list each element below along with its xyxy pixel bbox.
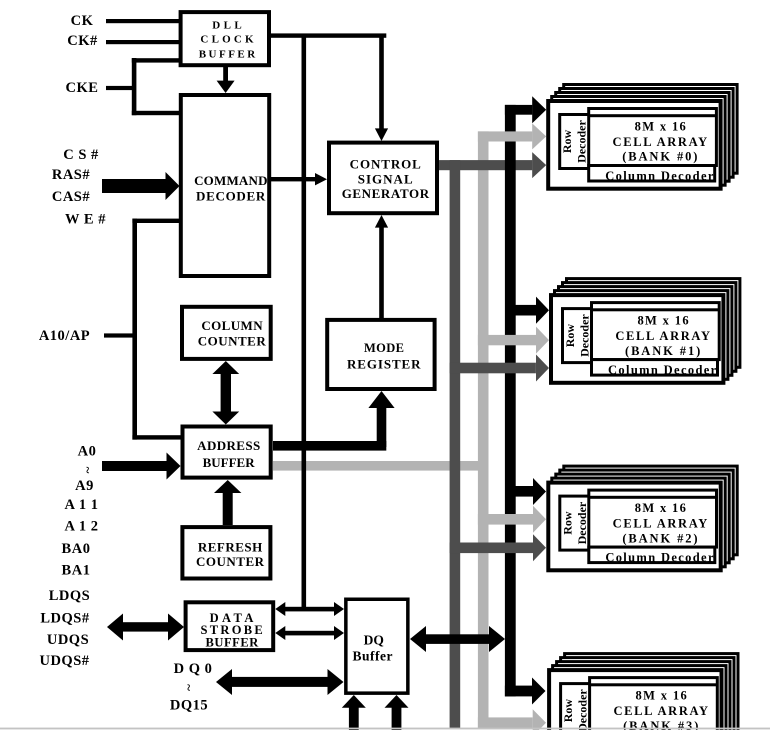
label A9 <box>75 478 94 494</box>
double arrow data strobe buffer / DQ buffer lower <box>275 626 344 640</box>
label WE# <box>65 212 106 228</box>
wire A10/AP input <box>104 333 137 337</box>
double arrow data strobe buffer / DQ buffer upper <box>275 602 344 616</box>
data bus branch arm to BANK1 <box>515 305 536 316</box>
wire DLL output horizontal <box>271 33 386 37</box>
svg-text:BA0: BA0 <box>62 541 91 557</box>
svg-text:CELL ARRAY: CELL ARRAY <box>613 135 709 149</box>
bank 3 stacked layers <box>553 654 738 730</box>
svg-text:Decoder: Decoder <box>575 501 589 544</box>
arrow refresh counter to address buffer <box>214 480 241 525</box>
address bus (light gray) vertical trunk <box>478 131 489 728</box>
svg-text:DLL: DLL <box>212 20 245 32</box>
bank 2 row decoder label <box>560 501 589 544</box>
bank 0 column decoder label <box>605 169 715 183</box>
label U1 line2 <box>200 34 256 46</box>
label U2 line2 <box>196 189 266 204</box>
address bus branch arm to BANK1 <box>478 335 536 345</box>
label LDQS# <box>40 611 89 627</box>
bank 0 row decoder box <box>560 115 590 169</box>
control bus arrowhead into BANK0 <box>532 152 546 178</box>
svg-text:CLOCK: CLOCK <box>200 34 256 46</box>
control bus branch arm to BANK1 <box>450 363 536 374</box>
svg-text:CKE: CKE <box>66 80 99 96</box>
data bus arrowhead into BANK3 <box>532 678 546 705</box>
bank 0 column decoder box <box>589 166 715 182</box>
address bus feed wire from ADDRESS BUFFER <box>273 461 489 471</box>
command input bus arrow (CS#,RAS#,CAS#,WE#) <box>102 172 180 200</box>
bank 3 cell array inner top line <box>590 683 718 686</box>
wire CKE vertical <box>132 58 137 115</box>
label U8 line2 <box>201 623 266 637</box>
bank 1 row decoder label <box>563 314 592 357</box>
label U6 line2 <box>203 455 256 470</box>
label U1 line1 <box>212 20 245 32</box>
svg-text:COUNTER: COUNTER <box>198 334 267 349</box>
data bus top elbow arm to BANK0 <box>505 105 532 115</box>
bank 1 cell array inner top line <box>592 308 720 311</box>
svg-text:LDQS#: LDQS# <box>40 611 89 627</box>
svg-text:DECODER: DECODER <box>196 189 266 204</box>
label A12 <box>65 519 99 535</box>
wire A10/AP branch to address buffer <box>132 435 181 439</box>
svg-text:Row: Row <box>560 511 574 535</box>
svg-text:GENERATOR: GENERATOR <box>342 186 430 201</box>
svg-text:CAS#: CAS# <box>52 189 91 205</box>
svg-text:CELL ARRAY: CELL ARRAY <box>613 517 709 531</box>
address buffer U6 <box>183 427 271 478</box>
bank 2 column decoder box <box>589 547 715 563</box>
label CKE <box>66 80 99 96</box>
bank 1 row decoder box <box>563 309 593 363</box>
label tilde DQ0-DQ15 <box>182 684 197 691</box>
label A10/AP <box>39 328 90 344</box>
wire CK input <box>106 19 179 23</box>
svg-text:LDQS: LDQS <box>49 588 91 604</box>
DQ0-DQ15 double arrow <box>216 669 344 695</box>
command decoder U2 <box>181 95 269 276</box>
svg-text:Column Decoder: Column Decoder <box>605 550 715 564</box>
svg-text:~: ~ <box>182 684 197 691</box>
svg-text:CONTROL: CONTROL <box>350 156 422 171</box>
svg-text:UDQS: UDQS <box>47 632 89 648</box>
address bus top elbow arm to BANK0 <box>478 131 532 141</box>
label U1 line3 <box>199 49 258 61</box>
bank 0 stacked layers <box>552 85 737 186</box>
arrowhead into U3 top <box>375 128 388 141</box>
svg-text:CELL ARRAY: CELL ARRAY <box>615 329 711 343</box>
label U6 line1 <box>197 438 260 453</box>
svg-text:BUFFER: BUFFER <box>199 49 258 61</box>
svg-text:DQ: DQ <box>364 633 384 648</box>
label U7 line2 <box>196 554 265 569</box>
svg-text:A 1 1: A 1 1 <box>65 497 99 513</box>
bank 2 cell array label line2 <box>613 517 709 531</box>
mode register U5 <box>327 320 434 389</box>
svg-text:W E #: W E # <box>65 212 106 228</box>
label U2 line1 <box>194 173 268 188</box>
bank 1 column decoder box <box>592 360 718 376</box>
svg-text:COLUMN: COLUMN <box>201 318 263 333</box>
bank 0 cell array box <box>589 109 717 166</box>
refresh counter U7 <box>182 527 270 578</box>
bank 3 row decoder label <box>561 689 590 730</box>
label CAS# <box>52 189 91 205</box>
svg-text:COUNTER: COUNTER <box>196 554 265 569</box>
address input bus arrow (A0-A9) <box>102 453 181 480</box>
bank 1 cell array label line2 <box>615 329 711 343</box>
svg-text:SIGNAL: SIGNAL <box>358 172 414 187</box>
svg-text:(BANK #1): (BANK #1) <box>625 344 702 358</box>
wire CKE input <box>106 86 136 90</box>
label U3 line1 <box>350 156 422 171</box>
column counter U4 <box>182 307 271 359</box>
arrowhead into mode register <box>368 391 394 408</box>
svg-text:(BANK #2): (BANK #2) <box>622 531 699 545</box>
DQ pad arrow 1 into DQ buffer <box>342 695 366 730</box>
bank 3 cell array label line3 <box>623 719 700 730</box>
label U5 line2 <box>347 356 421 371</box>
label U9 line2 <box>353 648 394 663</box>
arrow command decoder to U3 <box>271 173 327 185</box>
svg-text:UDQS#: UDQS# <box>39 653 89 669</box>
bank 3 cell array label line2 <box>613 704 709 718</box>
bank 2 cell array label line3 <box>622 531 699 545</box>
bank 1 cell array label line3 <box>625 344 702 358</box>
svg-text:CK: CK <box>71 13 94 29</box>
label CS# <box>63 147 99 163</box>
wire address buffer to mode register <box>273 407 386 451</box>
label A0 <box>78 444 97 460</box>
label DQ15 <box>170 698 208 714</box>
svg-text:D Q 0: D Q 0 <box>174 661 213 677</box>
label UDQS# <box>39 653 89 669</box>
svg-text:DQ15: DQ15 <box>170 698 208 714</box>
svg-text:REFRESH: REFRESH <box>198 540 263 555</box>
bank 2 cell array label line1 <box>635 501 688 515</box>
label U8 line1 <box>210 611 257 625</box>
svg-text:(BANK #0): (BANK #0) <box>622 150 699 164</box>
bank 1 cell array box <box>592 303 720 360</box>
bank 1 cell array label line1 <box>637 313 690 327</box>
data bus (black) vertical trunk <box>505 105 516 697</box>
svg-text:BUFFER: BUFFER <box>206 635 260 649</box>
label U4 line2 <box>198 334 267 349</box>
bank 2 column decoder label <box>605 550 715 564</box>
double arrow column counter / address buffer <box>212 361 239 425</box>
data bus arrowhead into BANK1 <box>536 297 549 324</box>
DQ buffer U9 <box>346 599 408 693</box>
label U4 line1 <box>201 318 263 333</box>
label BA1 <box>62 563 91 579</box>
wire DLL clock to control signal generator <box>379 35 384 130</box>
bank 0 row decoder label <box>560 120 589 163</box>
label U3 line3 <box>342 186 430 201</box>
address bus arrowhead into BANK1 <box>536 327 549 354</box>
svg-text:A 1 2: A 1 2 <box>65 519 99 535</box>
svg-text:C S #: C S # <box>63 147 99 163</box>
control bus branch arm to BANK2 <box>450 543 533 554</box>
bank 1 column decoder label <box>608 363 718 377</box>
label U3 line2 <box>358 172 414 187</box>
bank 3 row decoder box <box>561 684 591 730</box>
control bus arrowhead into BANK2 <box>533 534 546 561</box>
bank 1 front box <box>551 295 723 383</box>
svg-text:Buffer: Buffer <box>353 648 394 663</box>
control bus (dark gray) horizontal from U3 to BANK0 <box>439 160 532 170</box>
bank 0 front box <box>548 101 720 189</box>
data bus branch arm to BANK2 <box>515 486 536 497</box>
bank 0 cell array label line2 <box>613 135 709 149</box>
data strobe buffer U8 <box>186 602 274 650</box>
label U8 line3 <box>206 635 260 649</box>
wire CKE branch to command decoder <box>132 111 179 115</box>
svg-text:Decoder: Decoder <box>576 689 590 730</box>
bank 0 cell array inner top line <box>589 114 717 117</box>
svg-text:A9: A9 <box>75 478 94 494</box>
svg-text:BA1: BA1 <box>62 563 91 579</box>
bank 3 cell array box <box>590 678 718 730</box>
label CK# <box>67 33 98 49</box>
label DQ0 <box>174 661 213 677</box>
svg-text:A0: A0 <box>78 444 97 460</box>
bank 2 cell array inner top line <box>589 496 717 499</box>
arrow mode register to U3 <box>375 215 388 318</box>
page margin line <box>0 728 770 730</box>
label CK <box>71 13 94 29</box>
svg-text:~: ~ <box>81 467 96 474</box>
svg-text:Row: Row <box>560 130 574 154</box>
svg-text:8M x 16: 8M x 16 <box>635 501 688 515</box>
svg-text:Row: Row <box>563 324 577 348</box>
label A11 <box>65 497 99 513</box>
address bus bottom elbow arm to BANK3 <box>478 717 533 728</box>
svg-text:8M x 16: 8M x 16 <box>636 688 689 702</box>
svg-text:CELL ARRAY: CELL ARRAY <box>613 704 709 718</box>
control bus (dark gray) vertical trunk <box>450 160 461 728</box>
address bus arrowhead into BANK0 <box>532 123 546 149</box>
control signal generator U3 <box>329 143 437 214</box>
data bus arrowhead into BANK2 <box>533 478 546 505</box>
label U7 line1 <box>198 540 263 555</box>
address bus arrowhead into BANK3 <box>533 709 546 730</box>
label RAS# <box>52 167 91 183</box>
svg-text:COMMAND: COMMAND <box>194 173 268 188</box>
control bus arrowhead into BANK1 <box>536 355 549 382</box>
svg-text:RAS#: RAS# <box>52 167 91 183</box>
svg-text:BUFFER: BUFFER <box>203 455 256 470</box>
svg-text:8M x 16: 8M x 16 <box>635 119 688 133</box>
svg-text:ADDRESS: ADDRESS <box>197 438 260 453</box>
label LDQS <box>49 588 91 604</box>
wire A10/AP vertical <box>132 219 137 440</box>
bank 2 front box <box>548 483 720 571</box>
svg-text:Decoder: Decoder <box>578 314 592 357</box>
svg-text:Decoder: Decoder <box>575 120 589 163</box>
label U9 line1 <box>364 633 384 648</box>
wire CK# input <box>106 40 179 44</box>
svg-text:REGISTER: REGISTER <box>347 356 421 371</box>
bank 1 stacked layers <box>555 279 740 380</box>
bank 3 front box <box>549 670 721 730</box>
bank 0 cell array label line1 <box>635 119 688 133</box>
svg-text:MODE: MODE <box>364 341 405 355</box>
bank 2 cell array box <box>589 490 717 547</box>
double arrow DQ buffer / data bus <box>410 626 505 652</box>
label BA0 <box>62 541 91 557</box>
svg-text:CK#: CK# <box>67 33 98 49</box>
bank 2 stacked layers <box>552 466 737 567</box>
label U5 line1 <box>364 341 405 355</box>
DQS double arrow (LDQS,LDQS#,UDQS,UDQS#) <box>107 614 184 641</box>
wire DLL clock to data strobe buffer vertical <box>302 35 307 609</box>
arrow DLL buffer to command decoder <box>217 67 235 93</box>
DLL clock buffer U1 <box>181 12 269 65</box>
address bus branch arm to BANK2 <box>478 514 533 525</box>
svg-text:Column Decoder: Column Decoder <box>608 363 718 377</box>
svg-text:Column Decoder: Column Decoder <box>605 169 715 183</box>
bank 2 row decoder box <box>560 496 590 550</box>
wire CKE branch to DLL buffer <box>132 58 179 62</box>
bank 3 cell array label line1 <box>636 688 689 702</box>
address bus arrowhead into BANK2 <box>533 506 546 533</box>
wire A10/AP branch to command decoder <box>132 219 180 223</box>
label UDQS <box>47 632 89 648</box>
bank 0 cell array label line3 <box>622 150 699 164</box>
label tilde A0-A9 <box>81 467 96 474</box>
data bus bottom elbow arm to BANK3 <box>505 686 533 697</box>
svg-text:8M x 16: 8M x 16 <box>637 313 690 327</box>
DQ pad arrow 2 into DQ buffer <box>385 695 409 730</box>
svg-text:Row: Row <box>561 699 575 723</box>
data bus arrowhead into BANK0 <box>532 96 546 123</box>
svg-text:A10/AP: A10/AP <box>39 328 90 344</box>
